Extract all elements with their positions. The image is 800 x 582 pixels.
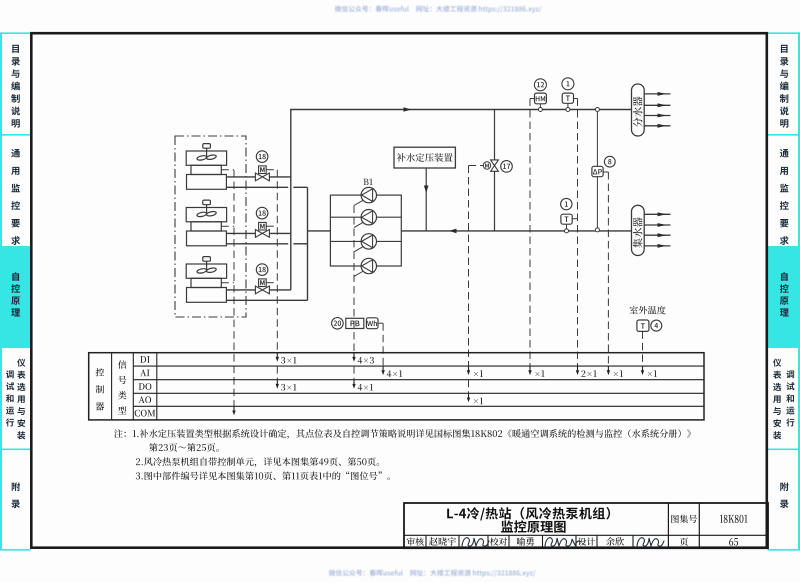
table header 控制器: [96, 368, 104, 376]
title block vertical dividers: [667, 503, 669, 548]
table row labels: [140, 356, 150, 362]
pipe: bypass with valve 17: [494, 110, 496, 231]
control wire: valve 1 to valve bus: [266, 169, 277, 171]
AI entry for HM: [529, 366, 531, 372]
wire: valve 17 to AI/AO: [469, 165, 484, 167]
sidebar active tab background left: [0, 246, 30, 348]
pipe: unit 1 return branch: [226, 186, 288, 188]
pipe: make-up water feed: [425, 168, 427, 231]
energy meter Wh box: [366, 318, 378, 329]
outdoor temperature sensor T tag 4: [637, 320, 649, 331]
AI/AO entries for valve 17: [468, 366, 470, 372]
heat pump unit 2 enclosure parts: [186, 200, 226, 246]
signature 2 (handwritten): [545, 538, 581, 546]
make-up water pressurization unit box: [394, 147, 455, 168]
heat pump unit 1 enclosure parts: [186, 144, 226, 190]
control wire: unit 2 controller to COM bus: [221, 225, 234, 227]
signature 1 (handwritten): [462, 538, 489, 546]
tag circle 18 (unit 1 valve): [256, 151, 268, 163]
sidebar tab 自控原理 (active) right: [781, 272, 788, 281]
supply temperature sensor T tag 1: [562, 78, 574, 90]
AI entry for outdoor T: [642, 366, 644, 372]
pump 1: [361, 187, 376, 202]
drawing title text: [447, 507, 610, 521]
title block row divider: [404, 534, 768, 536]
wire: HM to AI: [530, 98, 535, 100]
pipe: return riser: [307, 187, 309, 300]
tag circle 17: [501, 161, 513, 173]
pipe: supply riser: [290, 110, 292, 290]
wire: COM bus (units communication): [233, 170, 235, 406]
wire: dP to AI: [603, 171, 608, 173]
pump 2: [361, 210, 376, 225]
heat meter HM with tag 12: [534, 79, 546, 91]
title block labels and names: [671, 515, 697, 523]
pipe: unit 1 outlet to valve: [226, 176, 255, 178]
pipe: unit 2 return branch: [226, 243, 288, 245]
title block outer box: [404, 503, 768, 548]
control wire: valve 2 to valve bus: [266, 225, 277, 227]
left sidebar cyan strip: [0, 33, 2, 550]
pump 4: [361, 258, 376, 273]
sidebar tab 仪表选用与安装/调试和运行 right: [773, 359, 781, 367]
AI entry for T sensors: [577, 366, 579, 372]
control wire: unit 1 controller to COM bus: [221, 169, 234, 171]
motorized valve 18 on unit 3: [255, 279, 269, 294]
sidebar tab 自控原理 (active) left: [12, 272, 19, 281]
heat pump unit 3 enclosure parts: [186, 257, 226, 303]
right sidebar cyan strip: [798, 33, 800, 550]
pipe: supply main to distributor: [290, 109, 631, 111]
AI entry for dP: [607, 366, 609, 372]
motorized valve 18 on unit 1: [255, 166, 269, 181]
sidebar tab 目录与编制说明 left: [12, 45, 19, 53]
pipe: pump discharge: [308, 230, 331, 232]
return temperature sensor T tag 1: [561, 198, 572, 209]
sidebar tab 仪表选用与安装/调试和运行 left: [6, 370, 14, 378]
tag circle 18 (unit 2 valve): [256, 207, 268, 219]
power meter tag circle 20: [332, 318, 344, 330]
heat pump group dash-dot enclosure: [175, 136, 246, 317]
outdoor temperature sensor label: [630, 306, 666, 315]
sidebar active tab background right: [768, 246, 800, 348]
wire: Wh to AI: [378, 322, 383, 324]
note line 4: [136, 471, 390, 480]
differential pressure sensor dP tag 8: [596, 110, 598, 230]
note line 1: [114, 429, 691, 439]
control wire: unit 3 controller to COM bus: [221, 282, 234, 284]
controller signal table grid: [89, 353, 704, 420]
table header 信号类型: [118, 360, 126, 368]
wire: T sensors to AI (2x1): [574, 98, 578, 100]
note line 3: [136, 457, 379, 467]
modulating bypass valve 17: [491, 160, 499, 171]
supply water distributor 分水器: [632, 84, 645, 136]
DI/DO entries for valves 18: [276, 353, 278, 359]
pipe: unit 2 outlet to valve: [226, 232, 255, 234]
pipe: unit 3 outlet to valve: [226, 289, 255, 291]
pump 3: [361, 234, 376, 249]
note line 2: [149, 443, 219, 452]
pump group B1 manifold box: [330, 195, 401, 266]
AI entry for Wh: [382, 366, 384, 372]
power meter PB box: [346, 318, 364, 328]
wire: outdoor T to AI: [642, 331, 644, 366]
motorized valve 18 on unit 2: [255, 222, 269, 237]
DI/DO entries for pumps: [353, 353, 355, 359]
wire: valve control bus: [276, 170, 278, 353]
sidebar tab 目录与编制说明 right: [781, 45, 788, 53]
sidebar tab 附录 left: [12, 482, 20, 491]
COM entry (heat pump units bus): [233, 406, 235, 412]
pipe: return main from collector: [401, 230, 631, 232]
label B1: [364, 179, 373, 185]
wire: pump control bus: [353, 206, 355, 353]
sidebar tab 附录 right: [780, 482, 788, 491]
watermark top: [335, 6, 542, 13]
sidebar tab 通用监控要求 right: [780, 149, 789, 157]
return water collector 集水器: [632, 205, 645, 255]
sidebar separator lines: [0, 32, 31, 34]
control wire: valve 3 to valve bus: [266, 282, 277, 284]
sidebar tab 通用监控要求 left: [11, 149, 20, 157]
tag circle 18 (unit 3 valve): [256, 264, 268, 276]
watermark bottom: [329, 570, 536, 577]
pipe: unit 3 return branch: [226, 299, 307, 301]
signature 3 (handwritten): [637, 538, 664, 546]
